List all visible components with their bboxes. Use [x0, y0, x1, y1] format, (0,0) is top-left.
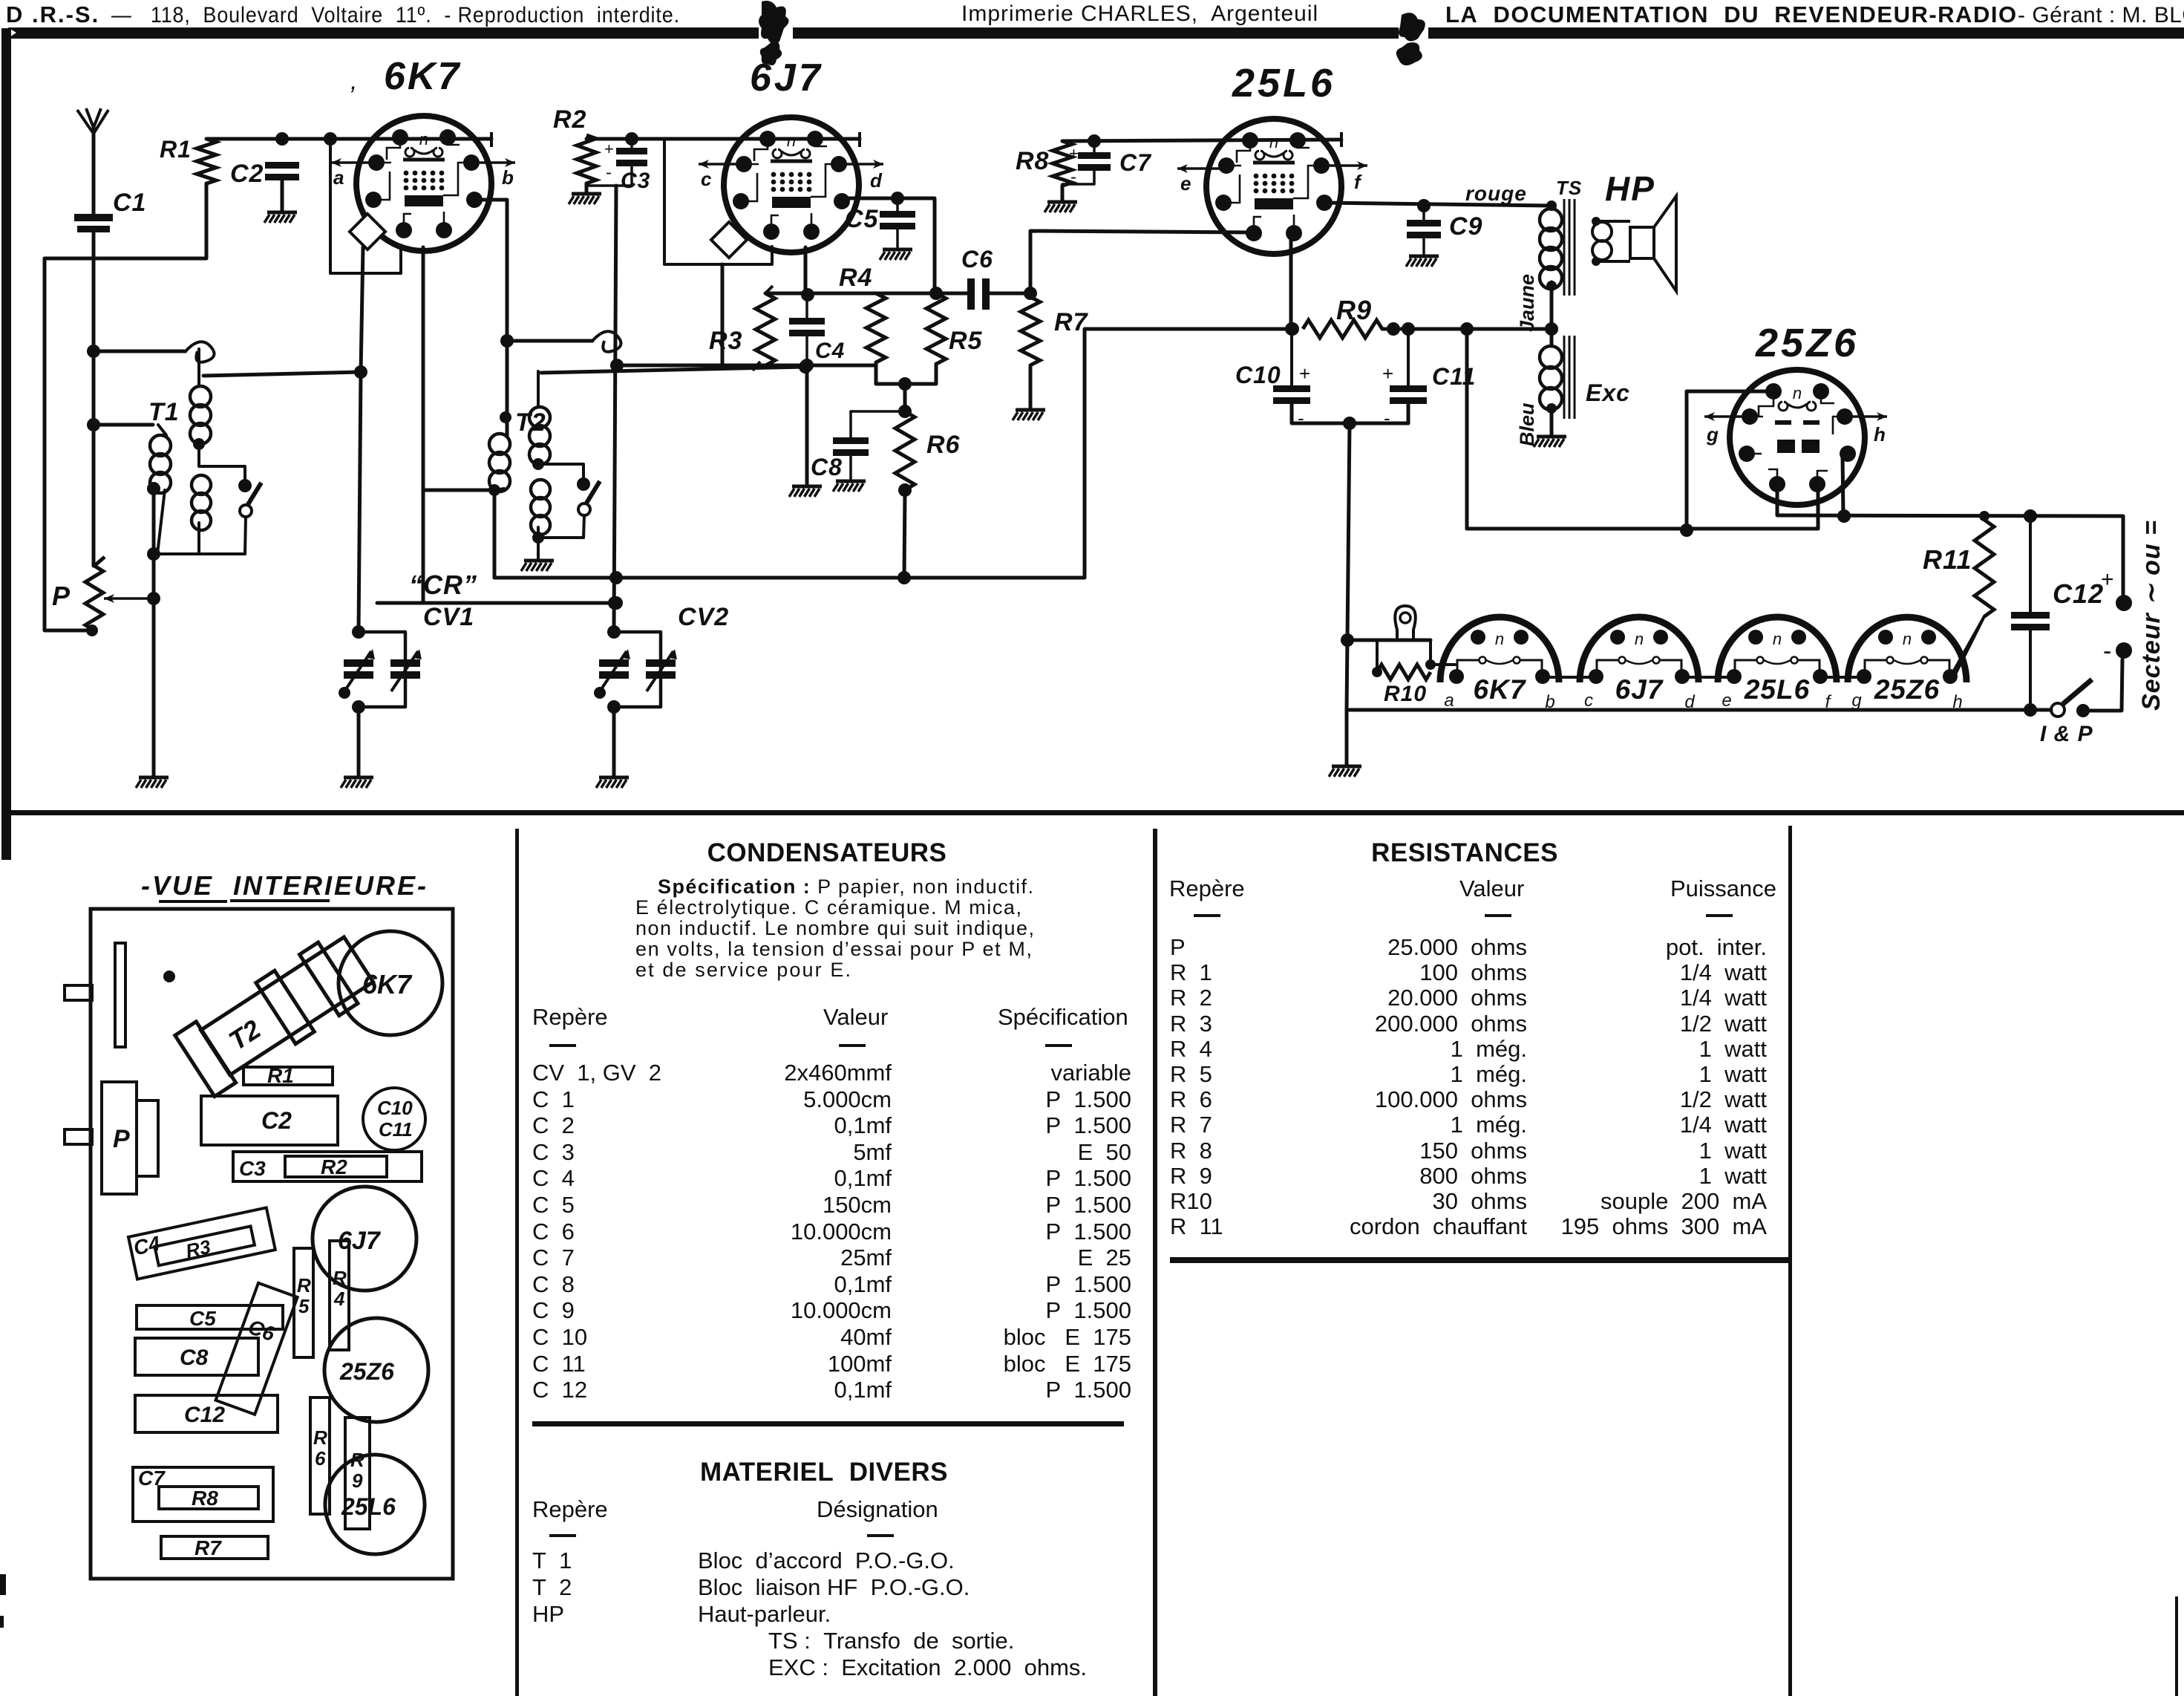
svg-text:P: P: [113, 1125, 130, 1153]
svg-text:n: n: [1793, 384, 1802, 402]
svg-text:C9: C9: [1449, 212, 1482, 241]
svg-text:R 11: R 11: [1170, 1213, 1223, 1239]
svg-text:h: h: [1874, 423, 1886, 446]
svg-text:R10: R10: [1384, 682, 1427, 706]
svg-text:R 5: R 5: [1170, 1061, 1212, 1087]
svg-text:P 1.500: P 1.500: [1046, 1086, 1131, 1112]
svg-text:c: c: [701, 168, 712, 190]
svg-text:P 1.500: P 1.500: [1046, 1219, 1131, 1245]
svg-text:a: a: [1444, 691, 1454, 711]
svg-text:g: g: [1706, 423, 1719, 446]
svg-text:9: 9: [352, 1470, 363, 1492]
svg-text:C 4: C 4: [532, 1165, 575, 1191]
svg-text:800 ohms: 800 ohms: [1419, 1163, 1527, 1189]
svg-text:R 1: R 1: [1170, 959, 1212, 985]
svg-text:6J7: 6J7: [1615, 674, 1664, 705]
svg-text:e: e: [1180, 172, 1191, 195]
svg-text:CONDENSATEURS: CONDENSATEURS: [707, 838, 947, 867]
svg-text:25L6: 25L6: [1232, 61, 1335, 105]
svg-text:1 watt: 1 watt: [1699, 1036, 1768, 1062]
svg-text:6: 6: [315, 1447, 326, 1470]
svg-text:+: +: [604, 140, 614, 158]
svg-text:4: 4: [333, 1288, 345, 1310]
svg-text:Jaune: Jaune: [1516, 274, 1538, 332]
svg-text:25L6: 25L6: [341, 1493, 396, 1520]
svg-text:I & P: I & P: [2040, 722, 2093, 746]
svg-text:R 7: R 7: [1170, 1112, 1212, 1138]
svg-text:— 118, Boulevard Voltaire: — 118, Boulevard Voltaire 11º. - Reprodu…: [111, 3, 680, 27]
svg-text:f: f: [1354, 171, 1362, 193]
svg-text:R 4: R 4: [1170, 1036, 1212, 1062]
svg-text:TS : Transfo de sortie.: TS : Transfo de sortie.: [768, 1628, 1014, 1654]
svg-text:20.000 ohms: 20.000 ohms: [1387, 985, 1527, 1011]
svg-text:Imprimerie CHARLES, Argenteui: Imprimerie CHARLES, Argenteuil: [961, 1, 1318, 26]
svg-text:EXC : Excitation 2.000 ohms: EXC : Excitation 2.000 ohms.: [768, 1654, 1087, 1680]
svg-text:P 1.500: P 1.500: [1046, 1192, 1131, 1218]
svg-text:+: +: [1299, 362, 1310, 385]
svg-text:n: n: [419, 130, 428, 149]
svg-text:R10: R10: [1170, 1188, 1212, 1214]
svg-text:0,1mf: 0,1mf: [834, 1165, 892, 1191]
svg-text:Repère: Repère: [532, 1004, 608, 1030]
svg-text:C3: C3: [621, 169, 650, 193]
svg-text:30 ohms: 30 ohms: [1432, 1188, 1527, 1214]
svg-text:R3: R3: [709, 327, 742, 355]
svg-text:C 6: C 6: [532, 1219, 575, 1245]
svg-text:-: -: [2103, 637, 2111, 665]
svg-text:Valeur: Valeur: [823, 1004, 888, 1030]
svg-text:C 1: C 1: [532, 1086, 575, 1112]
svg-text:Bloc d’accord P.O.-G.O.: Bloc d’accord P.O.-G.O.: [698, 1547, 955, 1573]
svg-text:150 ohms: 150 ohms: [1419, 1138, 1527, 1164]
svg-text:cordon chauffant: cordon chauffant: [1350, 1213, 1527, 1239]
svg-text:TS: TS: [1556, 177, 1582, 199]
svg-text:n: n: [1269, 133, 1278, 151]
svg-text:5mf: 5mf: [853, 1139, 892, 1165]
svg-text:E électrolytique. C céramiq: E électrolytique. C céramique. M mica,: [635, 896, 1021, 919]
svg-text:C10: C10: [1235, 362, 1281, 388]
svg-text:P 1.500: P 1.500: [1046, 1377, 1131, 1403]
svg-text:R2: R2: [321, 1155, 347, 1178]
svg-text:1 még.: 1 még.: [1451, 1036, 1527, 1062]
svg-text:C 8: C 8: [532, 1271, 575, 1297]
svg-text:Désignation: Désignation: [817, 1496, 938, 1522]
svg-text:25Z6: 25Z6: [1874, 674, 1940, 705]
svg-text:C4: C4: [815, 339, 845, 363]
svg-text:5.000cm: 5.000cm: [803, 1086, 892, 1112]
svg-text:6K7: 6K7: [384, 55, 461, 98]
svg-text:C 10: C 10: [532, 1324, 587, 1350]
svg-text:R1: R1: [160, 136, 192, 163]
svg-text:6K7: 6K7: [1474, 674, 1527, 705]
svg-text:D .R.-S.: D .R.-S.: [6, 1, 99, 27]
svg-text:Spécification : P papier, n: Spécification : P papier, non inductif.: [658, 875, 1033, 898]
svg-text:100mf: 100mf: [828, 1351, 892, 1377]
svg-text:10.000cm: 10.000cm: [791, 1297, 892, 1323]
svg-text:-: -: [1070, 167, 1076, 187]
svg-text:R7: R7: [194, 1536, 222, 1559]
svg-text:-: -: [606, 163, 612, 183]
svg-text:C8: C8: [180, 1346, 209, 1370]
svg-text:R5: R5: [949, 327, 983, 355]
svg-text:h: h: [1952, 692, 1962, 712]
svg-text:E 25: E 25: [1078, 1245, 1131, 1271]
svg-text:C2: C2: [230, 160, 264, 188]
svg-text:1/4 watt: 1/4 watt: [1680, 985, 1768, 1011]
svg-text:n: n: [1773, 630, 1782, 648]
svg-text:CV1: CV1: [423, 603, 474, 631]
svg-text:25L6: 25L6: [1744, 674, 1810, 705]
svg-text:bloc E 175: bloc E 175: [1004, 1324, 1131, 1350]
svg-text:200.000 ohms: 200.000 ohms: [1375, 1011, 1527, 1037]
svg-text:R2: R2: [553, 105, 586, 134]
svg-text:n: n: [1635, 630, 1644, 648]
svg-text:1/2 watt: 1/2 watt: [1680, 1086, 1768, 1112]
svg-text:P: P: [52, 581, 71, 611]
svg-text:LA DOCUMENTATION DU REVENDE: LA DOCUMENTATION DU REVENDEUR-RADIO: [1445, 1, 2018, 27]
svg-text:R 6: R 6: [1170, 1086, 1212, 1112]
svg-text:g: g: [1851, 691, 1862, 711]
svg-text:C1: C1: [113, 189, 146, 217]
svg-text:C 11: C 11: [532, 1351, 586, 1377]
svg-text:C 3: C 3: [532, 1139, 575, 1165]
svg-text:RESISTANCES: RESISTANCES: [1371, 838, 1558, 867]
svg-text:R7: R7: [1054, 308, 1089, 336]
svg-text:P: P: [1170, 934, 1186, 960]
svg-text:6K7: 6K7: [362, 969, 413, 999]
svg-text:+: +: [1069, 144, 1079, 163]
svg-text:T1: T1: [148, 398, 180, 426]
svg-text:variable: variable: [1050, 1060, 1131, 1086]
svg-text:R1: R1: [267, 1064, 294, 1087]
svg-text:Exc: Exc: [1586, 379, 1630, 406]
svg-text:n: n: [787, 131, 796, 150]
svg-text:1 még.: 1 még.: [1451, 1061, 1527, 1087]
svg-text:1/2 watt: 1/2 watt: [1680, 1011, 1768, 1037]
svg-text:C12: C12: [184, 1403, 225, 1427]
svg-text:C3: C3: [239, 1157, 266, 1180]
svg-text:R11: R11: [1923, 544, 1972, 575]
svg-text:195 ohms 300 mA: 195 ohms 300 mA: [1561, 1213, 1768, 1239]
svg-text:-: -: [1298, 407, 1304, 429]
svg-text:6J7: 6J7: [750, 56, 823, 100]
svg-text:C6: C6: [961, 246, 993, 273]
svg-text:Repère: Repère: [1169, 875, 1245, 901]
svg-text:-VUE INTERIEURE-: -VUE INTERIEURE-: [141, 870, 428, 901]
svg-text:P 1.500: P 1.500: [1046, 1165, 1131, 1191]
svg-text:Spécification: Spécification: [998, 1004, 1128, 1030]
svg-text:C8: C8: [811, 454, 843, 480]
svg-text:C12: C12: [2053, 578, 2104, 609]
svg-text:Bloc liaison HF P.O.-G.O.: Bloc liaison HF P.O.-G.O.: [698, 1574, 970, 1600]
svg-text:d: d: [870, 169, 883, 192]
svg-text:C2: C2: [261, 1107, 292, 1134]
svg-text:non inductif. Le nombre qui: non inductif. Le nombre qui suit indique…: [635, 917, 1034, 939]
svg-text:R6: R6: [926, 431, 961, 459]
svg-text:1/4 watt: 1/4 watt: [1680, 1112, 1768, 1138]
svg-text:R 9: R 9: [1170, 1163, 1212, 1189]
svg-text:P 1.500: P 1.500: [1046, 1271, 1131, 1297]
svg-text:150cm: 150cm: [823, 1192, 892, 1218]
svg-text:en volts, la tension d’ess: en volts, la tension d’essai pour P et M…: [635, 938, 1032, 960]
svg-text:Repère: Repère: [532, 1496, 608, 1522]
svg-text:C10: C10: [377, 1097, 413, 1119]
svg-text:5: 5: [298, 1295, 310, 1317]
svg-text:- Gérant : M. BLONDE: - Gérant : M. BLONDE: [2018, 3, 2184, 27]
svg-text:HP: HP: [532, 1601, 564, 1627]
svg-text:-: -: [1384, 407, 1390, 429]
svg-text:C5: C5: [845, 205, 879, 233]
svg-text:C 12: C 12: [532, 1377, 587, 1403]
svg-text:Bleu: Bleu: [1516, 402, 1538, 446]
svg-text:C11: C11: [379, 1118, 413, 1141]
svg-text:,: ,: [350, 67, 357, 95]
svg-text:et de service pour E.: et de service pour E.: [635, 959, 851, 981]
svg-text:T 1: T 1: [532, 1547, 572, 1573]
svg-text:HP: HP: [1605, 169, 1655, 208]
svg-text:C 5: C 5: [532, 1192, 575, 1218]
svg-text:Haut-parleur.: Haut-parleur.: [698, 1601, 831, 1627]
svg-text:R8: R8: [192, 1487, 218, 1510]
svg-text:C7: C7: [1119, 149, 1152, 176]
svg-text:Valeur: Valeur: [1459, 875, 1524, 901]
svg-text:1/4 watt: 1/4 watt: [1680, 959, 1768, 985]
svg-text:25mf: 25mf: [840, 1245, 892, 1271]
svg-text:R 8: R 8: [1170, 1138, 1212, 1164]
svg-text:c: c: [1584, 691, 1593, 711]
svg-text:+: +: [2101, 567, 2114, 592]
svg-text:n: n: [1495, 630, 1504, 648]
svg-text:0,1mf: 0,1mf: [834, 1377, 892, 1403]
svg-text:R 3: R 3: [1170, 1011, 1212, 1037]
svg-text:souple 200 mA: souple 200 mA: [1601, 1188, 1767, 1214]
svg-text:CV 1, GV 2: CV 1, GV 2: [532, 1060, 661, 1086]
svg-text:E 50: E 50: [1078, 1139, 1131, 1165]
svg-text:25Z6: 25Z6: [339, 1358, 394, 1385]
svg-text:P 1.500: P 1.500: [1046, 1297, 1131, 1323]
svg-text:10.000cm: 10.000cm: [791, 1219, 892, 1245]
svg-text:1 watt: 1 watt: [1699, 1138, 1768, 1164]
svg-text:1 watt: 1 watt: [1699, 1163, 1768, 1189]
svg-text:25.000 ohms: 25.000 ohms: [1387, 934, 1527, 960]
svg-text:P 1.500: P 1.500: [1046, 1112, 1131, 1138]
svg-text:0,1mf: 0,1mf: [834, 1112, 892, 1138]
svg-text:100.000 ohms: 100.000 ohms: [1375, 1086, 1527, 1112]
svg-text:e: e: [1722, 691, 1731, 711]
svg-text:C 7: C 7: [532, 1245, 575, 1271]
svg-text:b: b: [1545, 692, 1554, 712]
svg-text:R 2: R 2: [1170, 985, 1212, 1011]
svg-text:100 ohms: 100 ohms: [1419, 959, 1527, 985]
svg-text:+: +: [1382, 362, 1393, 385]
svg-text:n: n: [1903, 630, 1912, 648]
svg-text:2x460mmf: 2x460mmf: [784, 1060, 892, 1086]
svg-text:1 watt: 1 watt: [1699, 1061, 1768, 1087]
svg-text:R8: R8: [1016, 147, 1049, 175]
svg-text:R: R: [333, 1267, 347, 1289]
svg-text:T 2: T 2: [532, 1574, 572, 1600]
svg-text:40mf: 40mf: [840, 1324, 892, 1350]
svg-text:R: R: [297, 1274, 311, 1297]
svg-text:R4: R4: [839, 264, 872, 292]
svg-text:d: d: [1684, 692, 1695, 712]
svg-text:rouge: rouge: [1465, 182, 1527, 205]
svg-text:bloc E 175: bloc E 175: [1004, 1351, 1131, 1377]
svg-text:R: R: [313, 1426, 327, 1449]
svg-text:1 még.: 1 még.: [1451, 1112, 1527, 1138]
svg-text:25Z6: 25Z6: [1755, 321, 1859, 365]
svg-text:C 9: C 9: [532, 1297, 575, 1323]
svg-text:Secteur ∼ ou =: Secteur ∼ ou =: [2137, 520, 2165, 711]
svg-text:C5: C5: [189, 1307, 216, 1330]
svg-text:CV2: CV2: [678, 603, 729, 631]
svg-text:C11: C11: [1432, 363, 1476, 390]
svg-text:MATERIEL DIVERS: MATERIEL DIVERS: [700, 1458, 948, 1487]
svg-text:C 2: C 2: [532, 1112, 575, 1138]
svg-text:Puissance: Puissance: [1670, 875, 1776, 901]
svg-text:b: b: [502, 166, 514, 189]
svg-text:pot. inter.: pot. inter.: [1666, 934, 1767, 960]
svg-text:a: a: [333, 166, 344, 189]
svg-text:“CR”: “CR”: [409, 570, 477, 600]
svg-text:0,1mf: 0,1mf: [834, 1271, 892, 1297]
